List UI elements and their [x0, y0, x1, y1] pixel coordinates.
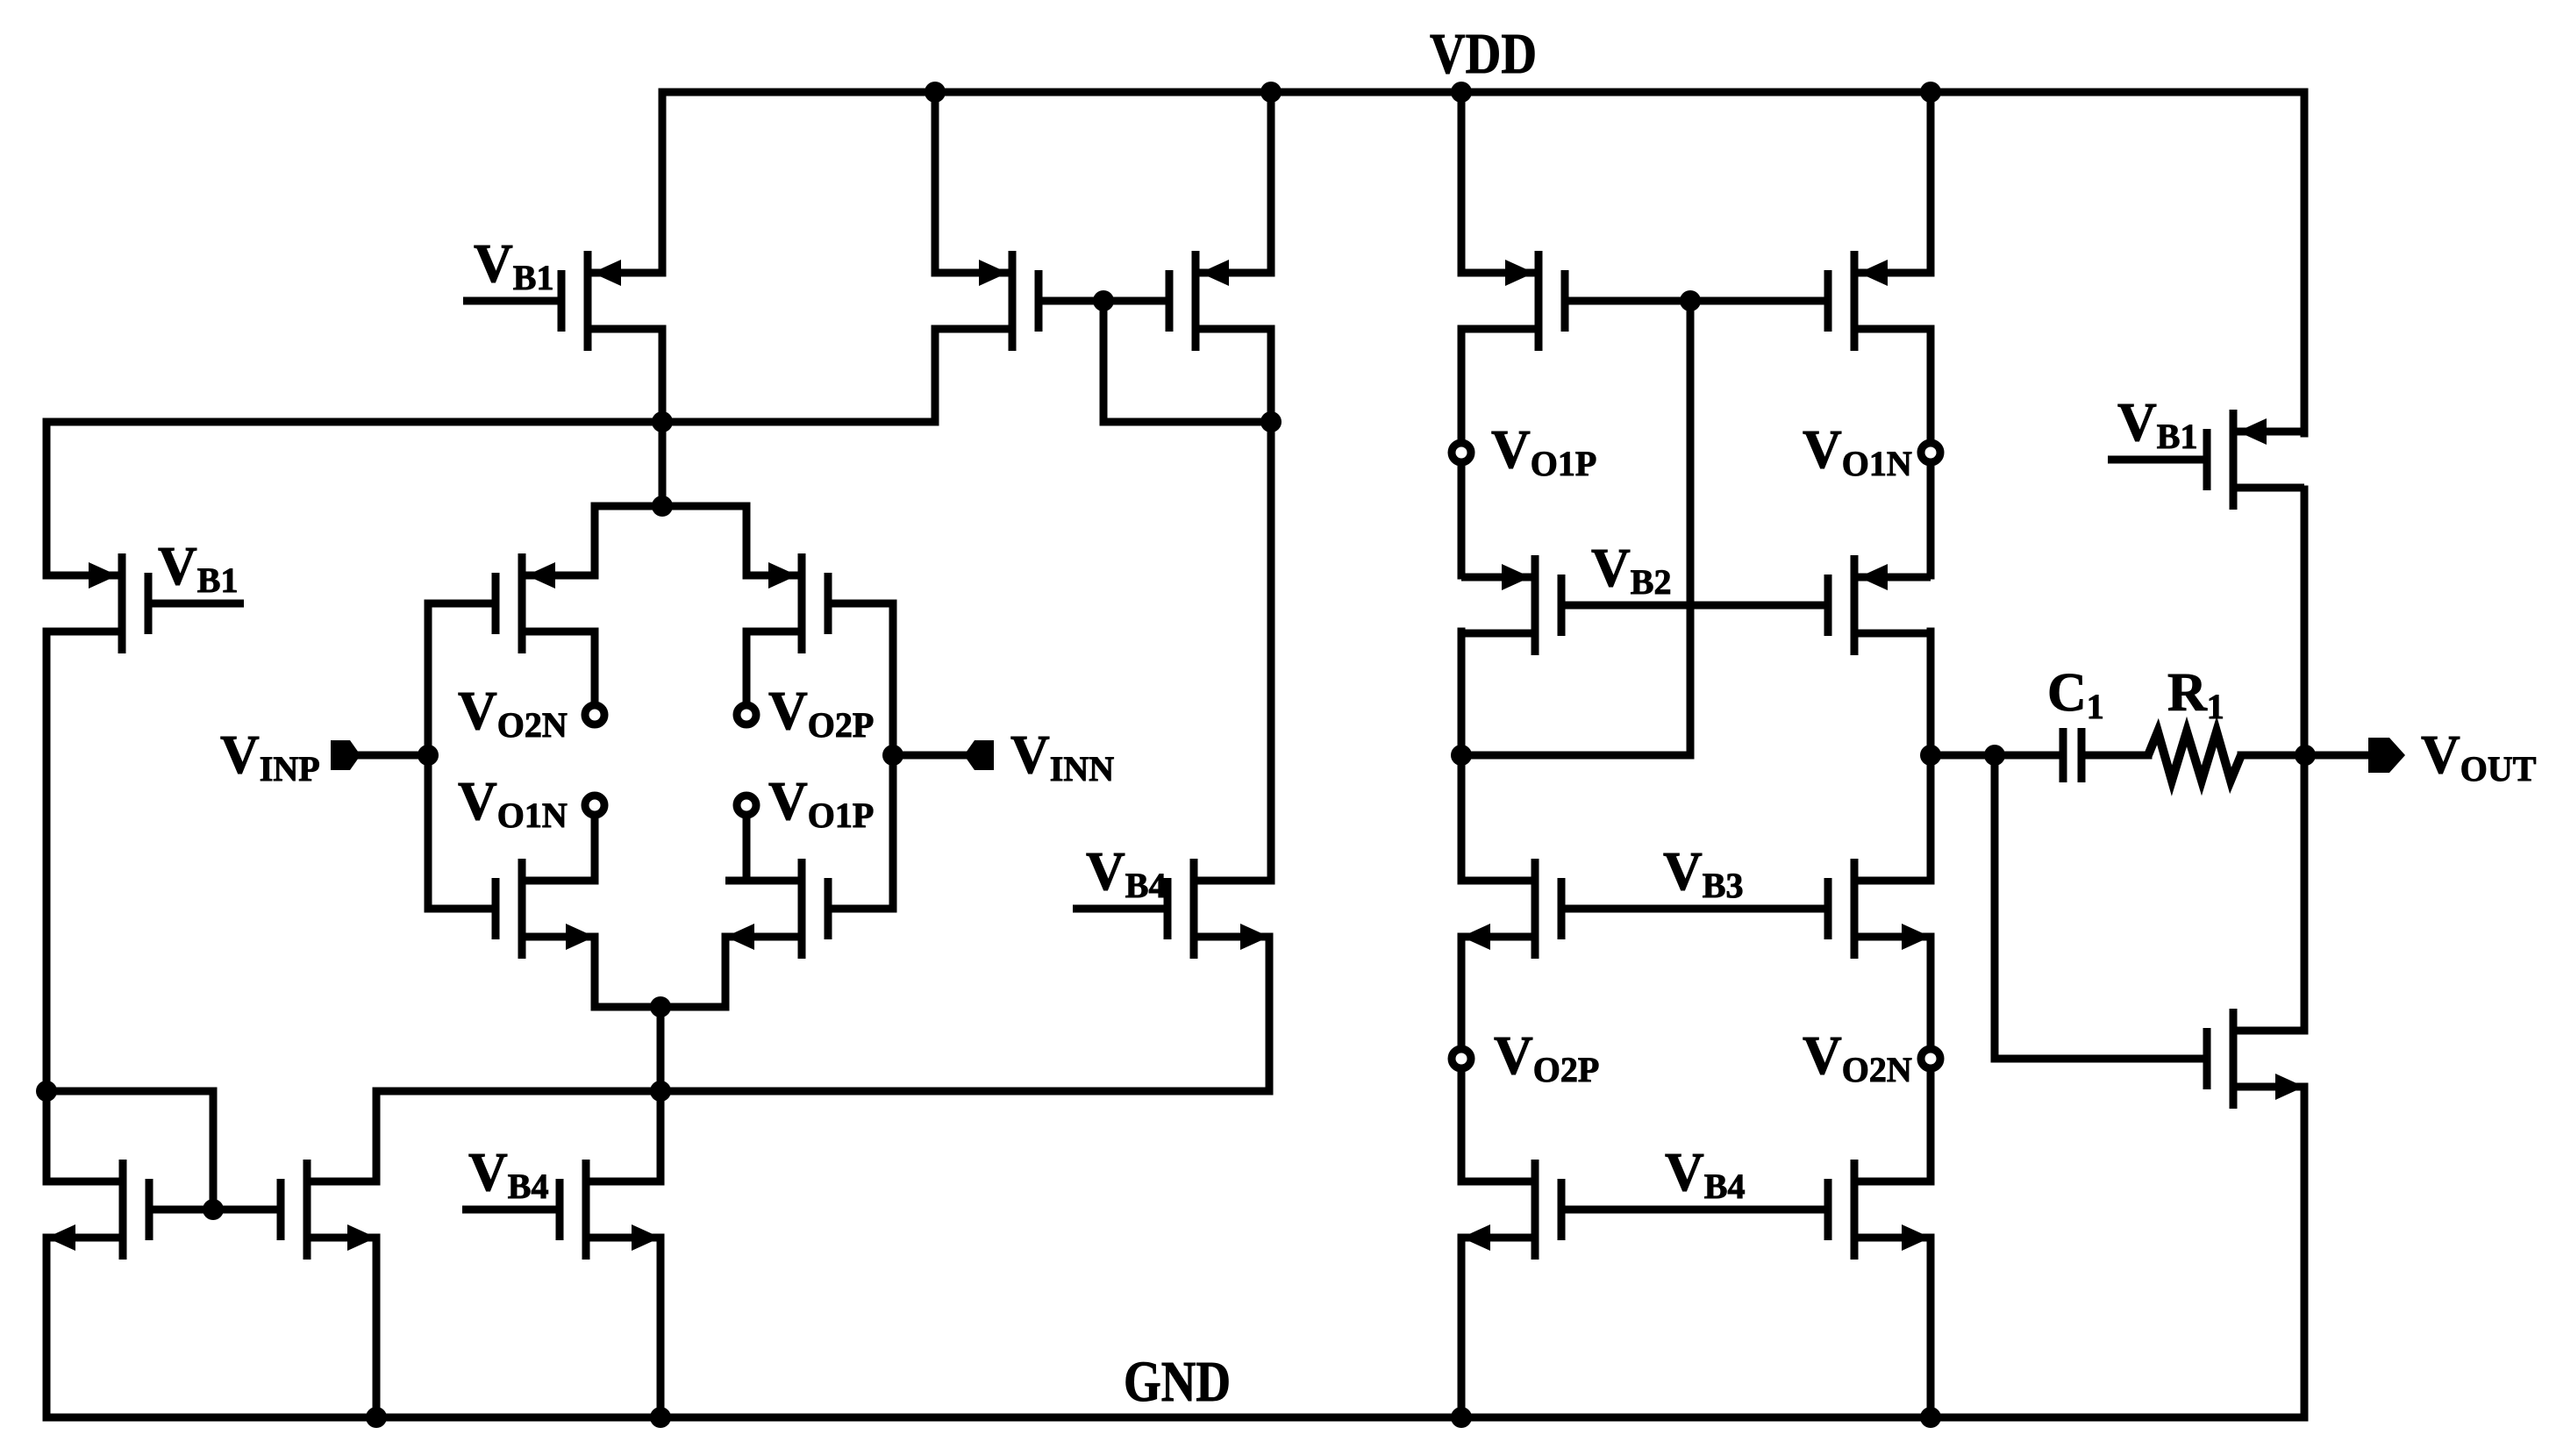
svg-text:VDD: VDD	[1430, 22, 1537, 86]
svg-text:GND: GND	[1124, 1350, 1231, 1414]
